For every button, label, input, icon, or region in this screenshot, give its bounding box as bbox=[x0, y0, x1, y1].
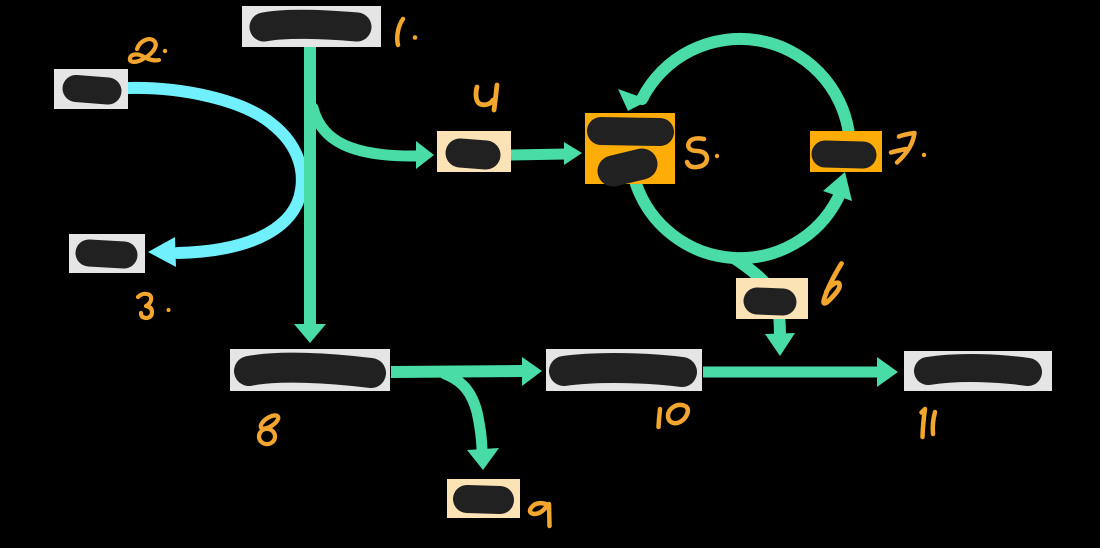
wire cyan curve from box2 to box3 bbox=[129, 88, 302, 253]
box 7 bbox=[810, 131, 882, 172]
arrowhead into box9 top bbox=[467, 448, 499, 470]
arrowhead below box6 bbox=[765, 333, 795, 356]
box 2 bbox=[54, 69, 128, 109]
label 5. bbox=[687, 138, 707, 167]
box10 redaction blob bbox=[564, 368, 682, 372]
box 1 bbox=[242, 6, 381, 47]
label 3. bbox=[138, 294, 152, 318]
box4 redaction blob bbox=[460, 153, 486, 155]
label 8 bbox=[259, 413, 281, 444]
wire box4 to box5 bbox=[511, 154, 566, 155]
box 8 bbox=[230, 349, 390, 391]
arrowhead into box8 top bbox=[294, 324, 326, 343]
arrowhead into box10 left bbox=[522, 357, 542, 386]
box7 redaction blob bbox=[825, 154, 863, 155]
box9 redaction blob bbox=[467, 499, 500, 500]
box6 redaction blob bbox=[757, 301, 783, 302]
arrowhead into box7 bottom bbox=[823, 172, 852, 201]
wire circle top arc (7 to 5) bbox=[642, 39, 849, 134]
wire box8 to box10 bbox=[391, 371, 522, 372]
label 11 bbox=[922, 409, 936, 437]
box5 redaction blob bottom bbox=[613, 164, 642, 171]
box 10 bbox=[546, 349, 702, 391]
box2 redaction blob bbox=[76, 89, 108, 92]
wire branch down to box9 bbox=[445, 374, 482, 452]
box1 redaction blob bbox=[264, 24, 357, 27]
box8 redaction blob bbox=[249, 368, 371, 373]
box 11 bbox=[904, 351, 1052, 391]
arrowhead into box5 top bbox=[618, 89, 649, 111]
wire branch to box4 bbox=[313, 108, 418, 156]
box 3 bbox=[69, 234, 145, 273]
label 6 bbox=[824, 264, 842, 304]
label 4 bbox=[476, 85, 497, 110]
wire branch from cycle to box6 arrow down bbox=[734, 258, 780, 338]
box 4 bbox=[437, 131, 511, 172]
arrowhead into box4 left bbox=[416, 141, 434, 169]
label 7. bbox=[891, 133, 915, 163]
label 1. bbox=[397, 19, 403, 45]
arrowhead into box3 bbox=[148, 237, 176, 267]
arrowhead into box5 left bbox=[564, 142, 582, 165]
box 5 bbox=[585, 113, 675, 184]
wire main vertical from box1 bbox=[304, 46, 316, 324]
box3 redaction blob bbox=[89, 253, 124, 255]
wire circle bottom arc (5 to 7) bbox=[636, 184, 838, 258]
box5 redaction blob top bbox=[601, 131, 660, 132]
box 6 bbox=[736, 278, 808, 319]
box11 redaction blob bbox=[928, 368, 1028, 372]
wire box10 to box11 bbox=[703, 367, 878, 378]
label 2. bbox=[130, 39, 159, 62]
box 9 bbox=[447, 479, 520, 518]
label 9 bbox=[530, 503, 550, 526]
arrowhead into box11 left bbox=[877, 357, 898, 387]
label 10 bbox=[659, 405, 688, 427]
